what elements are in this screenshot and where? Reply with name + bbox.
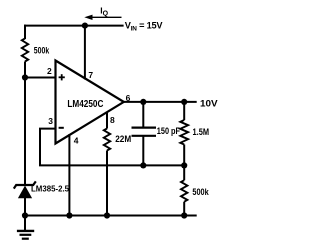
wire: pin 7 riser (V+ supply to op-amp) [84, 26, 86, 80]
svg-text:LM4250C: LM4250C [67, 99, 104, 110]
wire: D1 anode to ground rail [24, 198, 26, 216]
wire: non-inverting input (to pin 2) [25, 77, 56, 79]
svg-text:22M: 22M [115, 134, 131, 145]
junction: pin 4 at ground rail [66, 212, 72, 218]
svg-text:4: 4 [74, 135, 79, 145]
junction: output to R3 [181, 99, 187, 105]
wire: VIN supply rail (top) [24, 25, 124, 27]
wire: feedback net (horizontal) [39, 164, 184, 166]
svg-text:2: 2 [47, 66, 52, 76]
resistor R1 500k (bias, upper left) [22, 38, 28, 61]
svg-text:3: 3 [48, 116, 53, 126]
svg-text:500k: 500k [34, 46, 50, 56]
ground symbol [17, 216, 34, 239]
capacitor C1 150 pF [132, 102, 157, 165]
resistor R3 1.5M (feedback) [180, 102, 188, 165]
op-amp - input marker [59, 127, 64, 129]
junction: +input node [22, 74, 28, 80]
junction: R4 at ground rail [181, 212, 187, 218]
svg-text:150 pF: 150 pF [157, 126, 181, 136]
wire: R2 bottom lead to ground rail [106, 151, 108, 216]
resistor R4 500k (divider lower) [181, 165, 187, 215]
junction: feedback net right end [181, 162, 187, 168]
junction: C1 bottom at feedback net [140, 162, 146, 168]
junction: R2 at ground rail [104, 212, 110, 218]
wire: R1 bottom lead to +input node [24, 62, 26, 78]
wire: left rail upper segment (top corner down to 500k) [24, 25, 26, 39]
wire: pin 8 stub (Iset) [106, 113, 108, 129]
zener reference D1 LM385-2.5 [14, 181, 36, 198]
svg-text:LM385-2.5: LM385-2.5 [31, 183, 69, 193]
wire: inverting input feedback drop (pin 3 left and down) [40, 129, 56, 166]
junction: pin7 riser on VIN rail [82, 23, 88, 29]
junction: output to C1 [140, 99, 146, 105]
op-amp + input marker [59, 74, 65, 80]
svg-text:7: 7 [88, 70, 93, 80]
wire: left rail lower segment (node down to LM385 cathode) [24, 78, 26, 186]
resistor R2 22M (Iset) [104, 129, 110, 151]
wire: pin 4 (V- to ground) [68, 134, 70, 216]
op-amp U1 LM4250C [56, 61, 124, 144]
junction: ground rail left end [22, 212, 28, 218]
wire: ground rail (bottom) [25, 215, 197, 217]
wire: output net (pin 6 to 10V) [123, 101, 197, 103]
svg-text:8: 8 [110, 115, 115, 125]
svg-text:500k: 500k [192, 187, 209, 198]
svg-text:6: 6 [126, 93, 131, 103]
current arrow IQ [84, 15, 121, 20]
svg-text:1.5M: 1.5M [193, 127, 210, 137]
svg-text:10V: 10V [200, 99, 218, 110]
svg-text:VIN = 15V: VIN = 15V [125, 21, 164, 33]
